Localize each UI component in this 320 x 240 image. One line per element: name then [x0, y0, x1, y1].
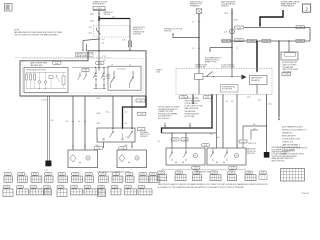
svg-text:E-1: E-1: [158, 141, 161, 143]
svg-text:(T.G.): (T.G.): [268, 104, 272, 106]
svg-text:COLOR CON: COLOR CON: [247, 151, 256, 153]
svg-text:CONNECTOR JOINT: CONNECTOR JOINT: [158, 111, 173, 113]
svg-text:25-6: 25-6: [89, 32, 92, 34]
svg-text:4-B: 4-B: [253, 124, 255, 126]
svg-text:C-28: C-28: [261, 172, 264, 174]
svg-text:25 W: 25 W: [234, 20, 238, 22]
svg-text:SUB WIRE COLOR CON: SUB WIRE COLOR CON: [164, 28, 183, 30]
svg-text:C-29: C-29: [59, 186, 63, 188]
svg-text:C-29: C-29: [299, 27, 303, 29]
svg-text:REFER TO P.23: REFER TO P.23: [190, 3, 202, 5]
svg-text:25-4: 25-4: [125, 123, 128, 125]
svg-text:20-B: 20-B: [125, 145, 128, 147]
svg-text:UP DOWN KEY OFF: UP DOWN KEY OFF: [196, 172, 210, 174]
svg-text:20-B: 20-B: [96, 145, 99, 147]
svg-text:J-01: J-01: [224, 32, 227, 34]
svg-text:C-27: C-27: [74, 174, 78, 176]
svg-text:CIRCUI: CIRCUI: [106, 76, 111, 78]
svg-text:C-27: C-27: [160, 172, 164, 174]
svg-text:1-W: 1-W: [122, 39, 126, 41]
svg-text:C-30: C-30: [126, 137, 129, 139]
svg-text:C-27: C-27: [45, 169, 48, 171]
svg-text:IGNITION: IGNITION: [104, 14, 111, 16]
svg-text:ECU IGNITION FU: ECU IGNITION FU: [158, 116, 172, 118]
svg-text:C-30: C-30: [237, 27, 241, 29]
svg-text:C-26: C-26: [18, 186, 22, 188]
svg-text:C-01: C-01: [126, 186, 130, 188]
svg-text:C-29: C-29: [195, 172, 199, 174]
svg-text:25-4: 25-4: [89, 27, 92, 29]
svg-text:25 W: 25 W: [224, 13, 228, 15]
svg-text:25L-2: 25L-2: [106, 112, 110, 114]
svg-text:C-26: C-26: [60, 174, 64, 176]
svg-text:C-30: C-30: [140, 129, 143, 131]
svg-text:C-30: C-30: [55, 63, 59, 65]
svg-text:C-31: C-31: [230, 172, 234, 174]
svg-text:SIDE PUSH UNIT B: SIDE PUSH UNIT B: [221, 1, 235, 3]
svg-text:C-213: C-213: [284, 74, 288, 76]
svg-text:C-30: C-30: [139, 100, 142, 102]
svg-text:JOINT GRO: JOINT GRO: [247, 153, 256, 155]
svg-text:87W80411: 87W80411: [301, 193, 309, 195]
svg-text:5-B: 5-B: [183, 139, 185, 141]
svg-text:FUSE BLOCK No.: FUSE BLOCK No.: [190, 1, 204, 3]
svg-text:UP DOWN KE: UP DOWN KE: [117, 68, 126, 70]
svg-text:CONTROL: CONTROL: [221, 6, 229, 8]
svg-text:25-2: 25-2: [125, 112, 128, 114]
svg-text:C-27: C-27: [231, 167, 234, 169]
svg-text:C-29: C-29: [206, 97, 210, 99]
svg-text:C-05: C-05: [140, 186, 144, 188]
svg-text:11-2: 11-2: [102, 39, 105, 41]
svg-text:C-27: C-27: [32, 186, 36, 188]
svg-text:CONTROL SYSTEM: CONTROL SYSTEM: [221, 66, 235, 68]
svg-text:2-B: 2-B: [51, 120, 53, 122]
svg-text:C-30: C-30: [72, 186, 76, 188]
svg-text:REFER TO P.: REFER TO P.: [133, 29, 143, 31]
svg-text:C-28: C-28: [173, 139, 177, 141]
svg-text:CIRCUIT GLASS UP DOWN KEY OFF: CIRCUIT GLASS UP DOWN KEY OFF MAIN SUB W…: [14, 34, 59, 37]
svg-text:JOINT GR: JOINT GR: [164, 31, 172, 33]
svg-text:WIRE COLOR CONNE: WIRE COLOR CONNE: [282, 69, 298, 71]
svg-text:C-205: C-205: [97, 8, 102, 10]
svg-text:C-30: C-30: [140, 114, 143, 116]
svg-text:BLOCK No.10 R: BLOCK No.10 R: [158, 118, 171, 120]
svg-text:1-4: 1-4: [236, 48, 238, 50]
svg-text:C-29: C-29: [101, 174, 105, 176]
svg-text:C-30: C-30: [212, 172, 216, 174]
svg-text:CONNECTOR JOIN: CONNECTOR JOIN: [93, 1, 108, 3]
svg-text:MOTOR TIMER: MOTOR TIMER: [222, 89, 232, 91]
svg-text:2-L: 2-L: [78, 121, 80, 123]
svg-text:GROUND BODY: GROUND BODY: [93, 3, 106, 5]
svg-text:UP: UP: [111, 65, 113, 67]
svg-text:C-28: C-28: [87, 174, 91, 176]
svg-text:C-30: C-30: [121, 148, 124, 150]
svg-text:4-B: 4-B: [226, 101, 228, 103]
svg-text:25M-2: 25M-2: [97, 98, 101, 100]
svg-text:MOTOR TIMER CIRC: MOTOR TIMER CIRC: [282, 62, 298, 64]
svg-text:C-30: C-30: [265, 41, 269, 43]
svg-text:C-28: C-28: [204, 145, 207, 147]
svg-text:REFER TO P.23-: REFER TO P.23-: [205, 61, 217, 63]
svg-text:JOINT GROU: JOINT GROU: [282, 71, 291, 73]
svg-text:C-31: C-31: [86, 186, 90, 188]
svg-text:C-13: C-13: [5, 186, 9, 188]
svg-text:C-30: C-30: [114, 174, 118, 176]
svg-text:C-01: C-01: [6, 174, 10, 176]
svg-text:C-09: C-09: [33, 174, 37, 176]
svg-text:C-204: C-204: [247, 172, 251, 174]
svg-text:C-13: C-13: [47, 174, 51, 176]
svg-text:C-29: C-29: [299, 41, 303, 43]
svg-text:DN: DN: [129, 65, 131, 67]
svg-text:CONTROL SYS: CONTROL SYS: [282, 142, 293, 144]
svg-text:11-4: 11-4: [103, 60, 106, 62]
svg-text:FUSE BLOCK No.10: FUSE BLOCK No.10: [205, 59, 219, 61]
svg-text:TAILGATE WIN: TAILGATE WIN: [30, 64, 43, 67]
svg-text:C-204: C-204: [141, 174, 145, 176]
svg-text:PUSH UNI: PUSH UNI: [133, 34, 141, 36]
svg-text:C-28: C-28: [177, 172, 181, 174]
svg-text:FUSE BLOCK No.10 REFER TO P: FUSE BLOCK No.10 REFER TO P: [282, 130, 306, 132]
svg-text:C-212: C-212: [151, 174, 155, 176]
svg-text:C-31: C-31: [128, 174, 132, 176]
svg-text:11-2: 11-2: [103, 56, 106, 58]
svg-text:25B-2: 25B-2: [97, 123, 101, 125]
svg-text:2: 2: [305, 6, 308, 11]
svg-text:WIRE COLOR: WIRE COLOR: [140, 134, 149, 136]
svg-text:C-05: C-05: [20, 174, 24, 176]
svg-text:FUSE BLOCK N: FUSE BLOCK N: [133, 27, 146, 29]
svg-text:25-8: 25-8: [84, 70, 87, 72]
svg-text:CONNECTO: CONNECTO: [140, 136, 149, 138]
svg-text:25M-4: 25M-4: [97, 113, 101, 115]
svg-text:E-4: E-4: [217, 137, 220, 139]
svg-text:2-B: 2-B: [258, 100, 260, 102]
svg-text:C-29: C-29: [97, 148, 100, 150]
svg-text:C-30: C-30: [225, 41, 229, 43]
svg-text:C-26: C-26: [194, 167, 197, 169]
svg-text:DOOR CONTROL SYSTE: DOOR CONTROL SYSTE: [185, 106, 203, 108]
svg-text:C-212: C-212: [112, 186, 116, 188]
svg-text:MOTOR TIME: MOTOR TIME: [185, 116, 195, 118]
svg-text:J-04: J-04: [247, 97, 250, 99]
svg-text:C-30: C-30: [98, 63, 102, 65]
svg-text:C-204: C-204: [99, 186, 103, 188]
svg-text:C-777: C-777: [250, 41, 254, 43]
svg-text:CIRCUIT GL: CIRCUIT GL: [248, 143, 257, 145]
svg-text:C-28: C-28: [45, 186, 49, 188]
svg-text:1-B: 1-B: [253, 128, 255, 130]
